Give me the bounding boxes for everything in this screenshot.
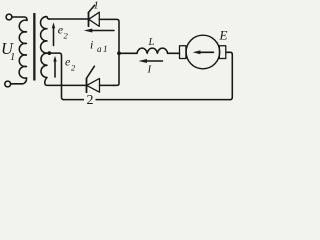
svg-text:E: E — [219, 28, 228, 43]
svg-text:2: 2 — [87, 93, 94, 108]
junction dot bus — [117, 51, 121, 55]
center tap wire — [47, 53, 64, 100]
wire thyristor 2 to bus — [100, 84, 116, 86]
anode current arrow id1 — [92, 30, 114, 32]
svg-text:L: L — [148, 37, 155, 48]
svg-text:1: 1 — [93, 0, 99, 12]
motor inner arrow — [200, 51, 214, 53]
svg-text:2: 2 — [64, 31, 69, 41]
svg-text:2: 2 — [71, 63, 76, 73]
svg-text:I: I — [147, 64, 153, 76]
bus lower half — [113, 53, 119, 85]
wire secondary bottom end to thyristor 2 — [45, 78, 87, 86]
secondary winding bottom section — [41, 53, 47, 77]
wire bus to inductor — [119, 52, 137, 54]
wire secondary top tap to thyristor 1 — [49, 18, 89, 20]
svg-text:i: i — [90, 38, 93, 52]
thyristor 2 triangle — [87, 78, 100, 92]
label 2 thyristor — [84, 94, 96, 105]
svg-text:1: 1 — [10, 52, 15, 63]
svg-text:a1: a1 — [97, 44, 109, 54]
terminal bottom-left — [5, 81, 11, 87]
wire primary bottom to terminal — [11, 78, 27, 84]
thyristor 2 cathode bar — [86, 78, 88, 92]
bottom return wire — [64, 99, 231, 101]
load current arrow I — [146, 60, 163, 62]
inductor L — [137, 48, 168, 53]
terminal top-left — [6, 14, 12, 20]
junction dot center tap — [47, 51, 51, 55]
motor brush right — [219, 46, 225, 59]
thyristor 1 cathode bar — [88, 12, 90, 26]
wire thyristor 1 to bus — [99, 19, 119, 53]
wire inductor to motor — [168, 52, 180, 54]
wire motor to right bus down — [226, 52, 233, 99]
secondary winding top section — [41, 17, 50, 54]
emf arrow e2 upper — [53, 27, 55, 46]
wire top terminal to primary — [12, 17, 27, 21]
motor armature circle — [186, 35, 220, 69]
emf arrow e2 lower — [54, 60, 56, 77]
motor brush left — [180, 46, 186, 59]
core — [33, 13, 35, 81]
thyristor 1 triangle — [89, 12, 100, 26]
thyristor 2 gate — [87, 66, 95, 78]
primary winding U1 — [19, 20, 26, 78]
thyristor 1 gate — [89, 5, 95, 12]
